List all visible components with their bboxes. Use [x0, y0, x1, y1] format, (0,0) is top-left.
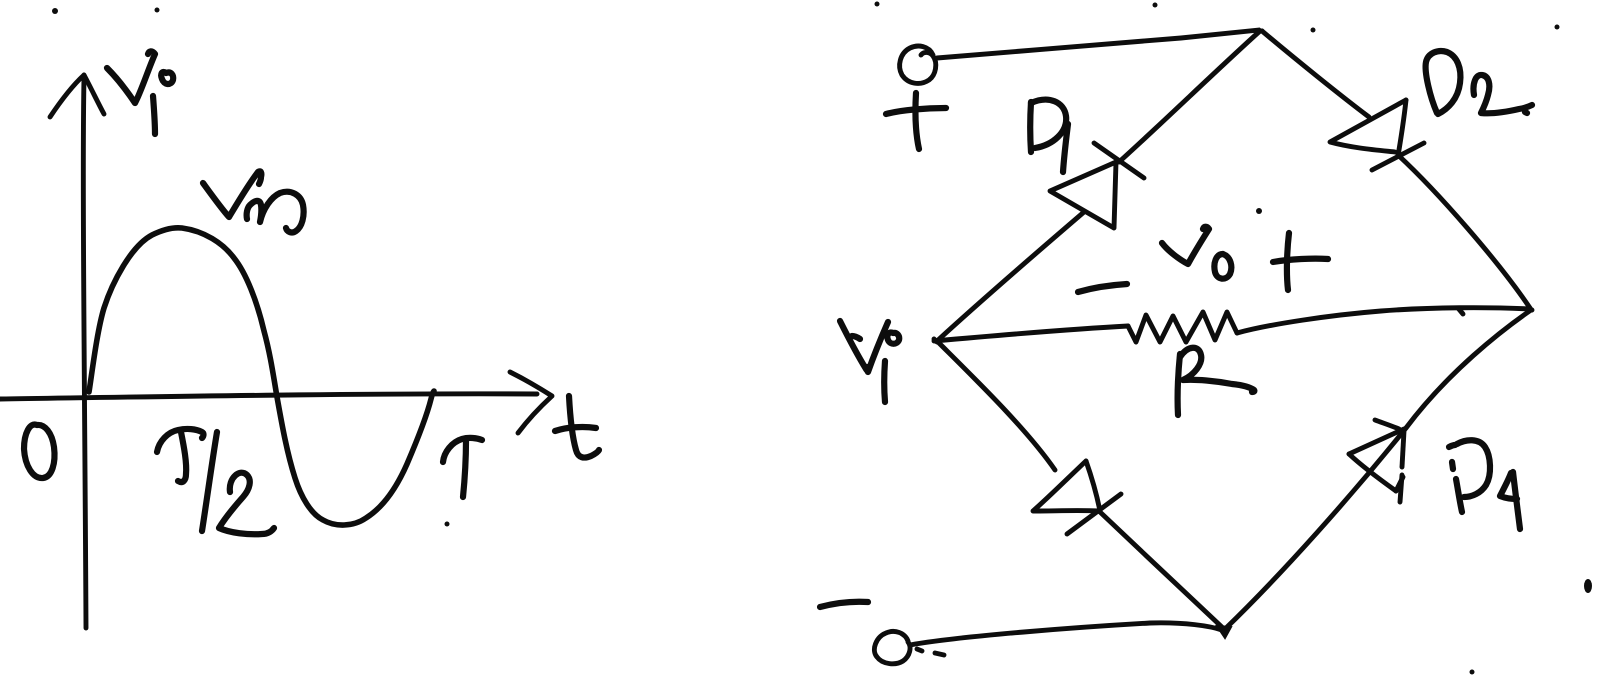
- node right: [1528, 308, 1532, 310]
- wire plus terminal to top node: [937, 30, 1259, 58]
- label + (Vo): [1273, 233, 1328, 290]
- wire left node to resistor: [934, 326, 1128, 341]
- wire top node to D2: [1262, 31, 1369, 117]
- label T: [443, 438, 482, 497]
- diode D4: [1349, 420, 1404, 502]
- diode D1: [1050, 143, 1144, 228]
- label Vi (axis): [107, 51, 173, 134]
- label minus (Vo): [1078, 284, 1127, 292]
- label + (input): [886, 93, 946, 149]
- label minus (input): [820, 602, 868, 607]
- label D1: [1030, 100, 1068, 172]
- wire left node to D3: [937, 341, 1055, 470]
- label t (axis): [555, 396, 599, 458]
- label R: [1178, 348, 1255, 415]
- diode D3: [1033, 461, 1121, 534]
- wire resistor to right node: [1237, 308, 1530, 333]
- tick on wire near right node: [1458, 308, 1463, 314]
- axis vertical (Vi axis): [50, 75, 104, 628]
- resistor R zigzag: [1128, 312, 1237, 342]
- node left: [934, 339, 937, 342]
- label Vm: [203, 171, 304, 232]
- wire bottom node to D4: [1225, 428, 1406, 629]
- terminal minus (input): [874, 631, 910, 663]
- stray dash near minus terminal: [917, 649, 944, 655]
- curve sine wave: [89, 228, 434, 525]
- node bottom: [1217, 626, 1231, 638]
- wire D1 to top node: [1119, 31, 1260, 162]
- label T/2: [157, 429, 274, 534]
- axis horizontal (t axis): [0, 372, 552, 433]
- label Vo: [1162, 227, 1231, 279]
- wire minus terminal to bottom node: [910, 623, 1222, 645]
- wire D3 to bottom node: [1100, 512, 1224, 629]
- label Vi (input source): [840, 321, 899, 402]
- wire D2 to right node: [1398, 155, 1530, 308]
- wire left node to D1: [937, 212, 1084, 341]
- label D2: [1426, 51, 1532, 114]
- terminal plus (input): [900, 46, 936, 83]
- label D4: [1449, 440, 1520, 529]
- node top: [1256, 29, 1262, 34]
- diode D2: [1330, 100, 1424, 170]
- label O (origin): [24, 425, 55, 479]
- wire D4 to right node: [1406, 310, 1531, 428]
